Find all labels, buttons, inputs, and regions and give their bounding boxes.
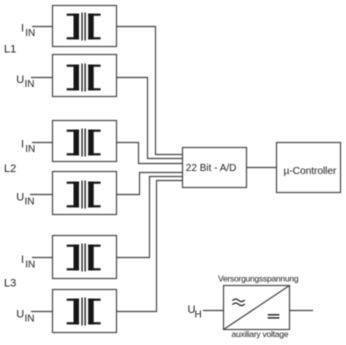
A/D converter box U1 — [183, 148, 247, 188]
svg-text:I: I — [21, 254, 24, 266]
label U_H (supply input) — [188, 304, 202, 320]
wire U_H input to supply — [203, 310, 224, 312]
svg-text:IN: IN — [25, 314, 35, 325]
svg-text:U: U — [16, 309, 24, 321]
label U_IN (L1 voltage input) — [16, 74, 34, 90]
wire T1 output to A/D — [117, 27, 183, 155]
svg-text:L2: L2 — [4, 163, 16, 175]
transformer symbol T2 — [67, 64, 101, 92]
wire input I L3 — [32, 257, 53, 259]
transformer symbol T6 — [67, 298, 101, 326]
transformer box T1 (I L1) — [53, 6, 117, 47]
wire input I L1 — [32, 26, 53, 28]
svg-text:22 Bit - A/D: 22 Bit - A/D — [186, 163, 237, 174]
transformer box T4 (U L2) — [53, 172, 117, 215]
microcontroller box U2 — [277, 143, 341, 193]
AC symbol (double tilde) in supply box — [233, 299, 245, 306]
DC symbol (equals) in supply box — [268, 315, 280, 318]
svg-text:auxiliary voltage: auxiliary voltage — [232, 329, 289, 339]
transformer symbol T5 — [67, 244, 101, 272]
svg-text:IN: IN — [25, 197, 35, 208]
svg-text:IN: IN — [25, 260, 35, 271]
label I_IN (L1 current input) — [21, 22, 35, 39]
svg-text:I: I — [21, 22, 24, 34]
transformer symbol T4 — [67, 181, 101, 209]
AC/DC supply box U3 — [224, 286, 290, 330]
wire T5 output to A/D — [117, 177, 183, 258]
label I_IN (L2 current input) — [21, 138, 35, 155]
wire supply output — [290, 310, 314, 312]
transformer symbol T3 — [67, 129, 101, 157]
wire T6 output to A/D — [117, 181, 183, 312]
svg-text:µ-Controller: µ-Controller — [284, 166, 337, 177]
wire T4 output to A/D — [117, 173, 183, 195]
wire input U L1 — [31, 77, 53, 79]
wire input U L2 — [30, 194, 53, 196]
diagonal of AC/DC converter — [224, 286, 290, 330]
label I_IN (L3 current input) — [21, 254, 35, 271]
transformer box T6 (U L3) — [53, 290, 117, 333]
svg-text:L1: L1 — [4, 44, 16, 56]
svg-text:U: U — [16, 74, 24, 86]
wire T3 output to A/D — [117, 143, 183, 164]
label U_IN (L2 voltage input) — [16, 192, 34, 208]
svg-text:I: I — [21, 138, 24, 150]
wire input U L3 — [31, 311, 53, 313]
transformer box T2 (U L1) — [53, 55, 117, 97]
transformer box T5 (I L3) — [53, 236, 117, 279]
svg-text:L3: L3 — [4, 277, 16, 289]
svg-text:Versorgungsspannung: Versorgungsspannung — [218, 274, 299, 284]
svg-text:IN: IN — [25, 28, 35, 39]
svg-text:IN: IN — [25, 144, 35, 155]
wire A/D to microcontroller — [247, 167, 277, 169]
svg-text:U: U — [16, 192, 24, 204]
transformer symbol T1 — [67, 13, 101, 41]
svg-text:IN: IN — [25, 79, 35, 90]
wire T2 output to A/D — [117, 78, 183, 159]
svg-text:H: H — [195, 310, 202, 321]
wire input I L2 — [32, 142, 53, 144]
label U_IN (L3 voltage input) — [16, 309, 34, 325]
transformer box T3 (I L2) — [53, 121, 117, 162]
